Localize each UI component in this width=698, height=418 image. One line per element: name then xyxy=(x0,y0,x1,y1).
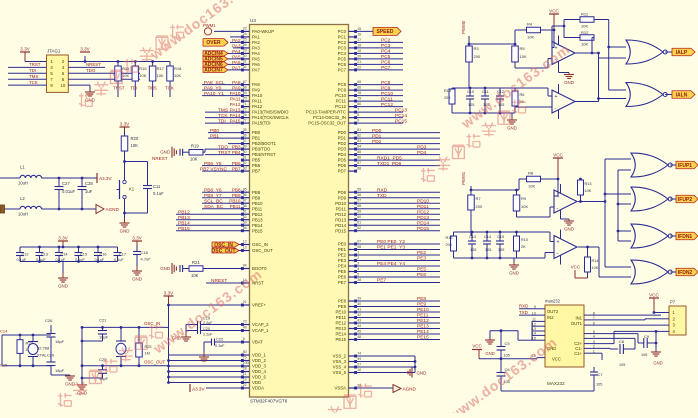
svg-text:RXD: RXD xyxy=(377,187,388,193)
svg-text:RXD1_PD5: RXD1_PD5 xyxy=(377,155,402,161)
svg-text:74: 74 xyxy=(357,351,361,355)
svg-text:max232: max232 xyxy=(545,299,561,304)
svg-text:OSC_OUT: OSC_OUT xyxy=(144,359,166,364)
svg-text:PD1: PD1 xyxy=(338,136,347,141)
svg-text:PE5: PE5 xyxy=(338,269,347,274)
svg-text:76: 76 xyxy=(243,113,247,117)
svg-text:PB6: PB6 xyxy=(232,161,241,166)
svg-text:PE3: PE3 xyxy=(417,256,426,262)
svg-text:PC9: PC9 xyxy=(338,88,347,93)
svg-text:VDDA: VDDA xyxy=(252,386,264,391)
svg-text:R9: R9 xyxy=(521,196,527,201)
svg-text:PB9_Y7: PB9_Y7 xyxy=(204,193,222,199)
svg-text:10K: 10K xyxy=(581,42,588,47)
svg-text:R13: R13 xyxy=(585,182,592,186)
svg-text:31: 31 xyxy=(243,60,247,64)
svg-text:10: 10 xyxy=(357,368,361,372)
svg-text:PE11: PE11 xyxy=(417,313,429,319)
svg-text:PD8: PD8 xyxy=(338,190,347,195)
svg-text:80: 80 xyxy=(357,102,361,106)
svg-text:PB7 VSYNC: PB7 VSYNC xyxy=(200,166,227,172)
svg-text:PE14: PE14 xyxy=(417,329,429,335)
svg-text:PB14: PB14 xyxy=(252,223,263,228)
svg-text:56: 56 xyxy=(357,193,361,197)
svg-text:PD13: PD13 xyxy=(335,217,346,222)
svg-text:3.3V: 3.3V xyxy=(20,47,30,52)
svg-text:C13: C13 xyxy=(469,235,476,239)
svg-text:C9: C9 xyxy=(644,334,650,339)
svg-text:R25: R25 xyxy=(145,345,152,349)
svg-text:99: 99 xyxy=(357,357,361,361)
svg-text:PC11: PC11 xyxy=(336,99,347,104)
svg-text:C8: C8 xyxy=(619,339,625,344)
svg-text:TXD1_PD6: TXD1_PD6 xyxy=(377,161,402,167)
svg-text:C7: C7 xyxy=(598,372,604,377)
svg-text:73: 73 xyxy=(243,320,247,324)
svg-text:PC12: PC12 xyxy=(381,102,393,108)
svg-text:C5: C5 xyxy=(505,341,511,346)
svg-text:PWM0: PWM0 xyxy=(461,20,466,34)
svg-text:PC3: PC3 xyxy=(338,46,347,51)
svg-text:IN2: IN2 xyxy=(547,315,554,320)
svg-text:OUT1: OUT1 xyxy=(571,321,583,326)
svg-text:PA5: PA5 xyxy=(232,54,241,59)
svg-text:OUT2: OUT2 xyxy=(547,309,559,314)
svg-text:PD3: PD3 xyxy=(417,144,427,150)
svg-text:TXD: TXD xyxy=(519,310,528,315)
svg-text:PD5: PD5 xyxy=(338,158,347,163)
svg-text:6: 6 xyxy=(243,337,245,341)
svg-text:C11: C11 xyxy=(153,184,161,189)
svg-text:PE13: PE13 xyxy=(335,326,346,331)
svg-text:PC15: PC15 xyxy=(395,118,407,124)
svg-text:105: 105 xyxy=(641,353,647,357)
svg-text:200: 200 xyxy=(446,243,452,247)
svg-text:PB15: PB15 xyxy=(178,226,190,232)
svg-text:PC4: PC4 xyxy=(338,51,347,56)
svg-text:C15: C15 xyxy=(0,363,8,368)
svg-text:PE2: PE2 xyxy=(417,250,426,256)
svg-text:PE5: PE5 xyxy=(417,267,426,273)
svg-text:PC15-OSC32_OUT: PC15-OSC32_OUT xyxy=(308,121,346,126)
svg-text:42: 42 xyxy=(357,313,361,317)
svg-text:105: 105 xyxy=(498,248,504,252)
svg-text:62: 62 xyxy=(357,226,361,230)
svg-text:5: 5 xyxy=(357,272,359,276)
svg-text:PD0: PD0 xyxy=(338,130,347,135)
svg-text:PE7: PE7 xyxy=(338,280,347,285)
svg-text:PD4: PD4 xyxy=(417,150,427,156)
svg-text:38: 38 xyxy=(357,278,361,282)
svg-text:TCK: TCK xyxy=(165,86,174,91)
svg-text:GND: GND xyxy=(132,277,142,282)
svg-text:100: 100 xyxy=(243,361,249,365)
svg-text:R18: R18 xyxy=(174,66,182,71)
svg-text:37: 37 xyxy=(243,139,247,143)
svg-text:PA4: PA4 xyxy=(252,51,260,56)
svg-text:18pF: 18pF xyxy=(55,339,65,344)
svg-text:91: 91 xyxy=(243,155,247,159)
svg-text:43: 43 xyxy=(357,318,361,322)
svg-text:41: 41 xyxy=(357,307,361,311)
svg-text:21: 21 xyxy=(357,60,361,64)
svg-text:PE10: PE10 xyxy=(417,307,429,313)
svg-text:1: 1 xyxy=(357,250,359,254)
svg-text:R17: R17 xyxy=(157,66,165,71)
svg-text:PB8: PB8 xyxy=(252,190,261,195)
svg-text:IALN: IALN xyxy=(676,92,688,98)
svg-text:16: 16 xyxy=(357,32,361,36)
svg-text:-: - xyxy=(557,205,559,211)
svg-text:TXD: TXD xyxy=(377,193,387,199)
svg-text:28: 28 xyxy=(243,367,247,371)
svg-text:VCAP_2: VCAP_2 xyxy=(252,322,269,327)
svg-text:45: 45 xyxy=(357,329,361,333)
svg-text:49: 49 xyxy=(243,326,247,330)
svg-text:IFUP2: IFUP2 xyxy=(678,197,692,203)
svg-text:10K: 10K xyxy=(528,184,535,189)
svg-text:PC14-OSC32_IN: PC14-OSC32_IN xyxy=(313,115,346,120)
svg-text:A3.3V: A3.3V xyxy=(99,176,112,181)
svg-text:PB0: PB0 xyxy=(252,130,261,135)
svg-text:IFDN1: IFDN1 xyxy=(678,234,693,240)
svg-text:R7: R7 xyxy=(476,196,482,201)
svg-text:PA9_Y0: PA9_Y0 xyxy=(204,85,222,91)
svg-text:4.7uF: 4.7uF xyxy=(141,257,152,262)
svg-text:PE4 PE4_Y4: PE4 PE4_Y4 xyxy=(377,261,405,267)
svg-text:C21: C21 xyxy=(99,318,107,323)
svg-text:C14: C14 xyxy=(484,235,491,239)
svg-text:U3: U3 xyxy=(250,18,256,23)
svg-text:PB3/TDO: PB3/TDO xyxy=(252,147,271,152)
svg-text:PA6: PA6 xyxy=(252,62,260,67)
svg-text:C17: C17 xyxy=(119,252,126,256)
svg-text:27: 27 xyxy=(357,362,361,366)
svg-text:TMS: TMS xyxy=(218,107,228,113)
svg-text:77: 77 xyxy=(243,118,247,122)
svg-text:PC7: PC7 xyxy=(381,65,391,71)
svg-text:PB1: PB1 xyxy=(252,136,261,141)
svg-text:GND: GND xyxy=(160,266,170,271)
svg-text:78: 78 xyxy=(357,91,361,95)
svg-text:PA15(TDI: PA15(TDI xyxy=(252,121,271,126)
svg-text:VSS_2: VSS_2 xyxy=(333,354,347,359)
svg-text:25: 25 xyxy=(243,38,247,42)
svg-text:PA3: PA3 xyxy=(252,46,260,51)
svg-text:PA10_Y1: PA10_Y1 xyxy=(204,91,224,97)
svg-text:10K: 10K xyxy=(585,189,592,193)
svg-text:29: 29 xyxy=(243,49,247,53)
svg-text:PE6: PE6 xyxy=(417,272,426,278)
svg-text:GND: GND xyxy=(485,351,494,356)
svg-text:TMS: TMS xyxy=(29,74,38,79)
svg-text:1uF: 1uF xyxy=(85,189,93,194)
svg-text:PB3: PB3 xyxy=(232,145,241,150)
svg-text:10K: 10K xyxy=(520,54,527,59)
svg-text:PC14: PC14 xyxy=(395,113,407,119)
svg-text:10K: 10K xyxy=(157,73,164,78)
svg-text:R5: R5 xyxy=(520,46,526,51)
svg-text:7: 7 xyxy=(357,108,359,112)
svg-text:PA11: PA11 xyxy=(230,97,241,102)
svg-text:PD14: PD14 xyxy=(417,220,429,226)
svg-text:PB10: PB10 xyxy=(229,199,241,204)
svg-text:TCK: TCK xyxy=(29,80,38,85)
svg-text:C27: C27 xyxy=(62,181,70,186)
svg-text:PC0: PC0 xyxy=(338,29,347,34)
svg-text:VCC: VCC xyxy=(571,265,580,270)
svg-text:2.2uF: 2.2uF xyxy=(203,333,213,337)
svg-text:GND: GND xyxy=(120,229,130,234)
svg-text:R12: R12 xyxy=(581,30,589,35)
svg-text:R4: R4 xyxy=(527,22,533,27)
svg-text:PC1: PC1 xyxy=(338,35,347,40)
svg-text:PA14(TCK/SWCLK: PA14(TCK/SWCLK xyxy=(252,115,289,120)
svg-text:ADCIN7: ADCIN7 xyxy=(204,68,223,74)
svg-text:81: 81 xyxy=(357,128,361,132)
svg-text:C26: C26 xyxy=(45,318,53,323)
svg-text:TDI: TDI xyxy=(218,118,226,124)
svg-text:85: 85 xyxy=(357,150,361,154)
svg-text:PB12: PB12 xyxy=(252,212,263,217)
svg-text:92: 92 xyxy=(243,161,247,165)
svg-text:10K: 10K xyxy=(122,73,129,78)
svg-text:R6: R6 xyxy=(520,93,525,97)
svg-text:21: 21 xyxy=(243,300,247,304)
svg-text:GND: GND xyxy=(85,98,95,103)
svg-text:C14: C14 xyxy=(0,329,8,334)
svg-text:PD7: PD7 xyxy=(338,169,347,174)
svg-text:PD3: PD3 xyxy=(338,147,347,152)
svg-text:75: 75 xyxy=(243,356,247,360)
svg-text:86: 86 xyxy=(357,156,361,160)
svg-text:23: 23 xyxy=(243,27,247,31)
svg-text:C18: C18 xyxy=(141,250,149,255)
svg-text:8: 8 xyxy=(357,113,359,117)
svg-text:2K: 2K xyxy=(521,245,526,249)
svg-text:10K: 10K xyxy=(174,73,181,78)
svg-text:OSC_IN: OSC_IN xyxy=(252,242,268,247)
svg-text:10uH: 10uH xyxy=(18,212,28,217)
svg-text:84: 84 xyxy=(357,145,361,149)
svg-text:66: 66 xyxy=(357,86,361,90)
svg-text:PB13: PB13 xyxy=(178,215,190,221)
svg-text:PC5: PC5 xyxy=(381,54,391,60)
svg-text:17: 17 xyxy=(357,38,361,42)
svg-text:PE9: PE9 xyxy=(417,302,426,308)
svg-text:GND: GND xyxy=(58,284,68,289)
svg-text:0.1uF: 0.1uF xyxy=(215,344,225,348)
svg-text:-: - xyxy=(557,251,559,257)
svg-text:VDD_3: VDD_3 xyxy=(252,364,266,369)
svg-text:60: 60 xyxy=(357,215,361,219)
svg-text:PE3: PE3 xyxy=(338,258,347,263)
svg-text:3: 3 xyxy=(357,261,359,265)
svg-text:PE11: PE11 xyxy=(336,315,347,320)
svg-text:PE1: PE1 xyxy=(338,247,347,252)
svg-text:VCC: VCC xyxy=(552,356,561,361)
svg-text:SDA_BC: SDA_BC xyxy=(204,204,224,210)
svg-text:32.768: 32.768 xyxy=(37,346,50,351)
svg-text:10K: 10K xyxy=(191,273,199,278)
svg-text:54: 54 xyxy=(243,226,247,230)
svg-text:PB9: PB9 xyxy=(232,193,241,198)
svg-text:50: 50 xyxy=(243,350,247,354)
svg-text:PA12: PA12 xyxy=(230,102,241,107)
svg-text:PB8_Y6: PB8_Y6 xyxy=(204,187,222,193)
svg-text:VSSA: VSSA xyxy=(335,386,347,391)
svg-text:PE1 PE1_Y3: PE1 PE1_Y3 xyxy=(377,245,405,251)
svg-text:PA5: PA5 xyxy=(252,57,260,62)
svg-text:PC13-TAMPER-RTC: PC13-TAMPER-RTC xyxy=(306,110,346,115)
svg-text:105: 105 xyxy=(485,248,491,252)
svg-text:C22: C22 xyxy=(216,337,223,342)
svg-text:PB2/BOOT1: PB2/BOOT1 xyxy=(252,141,276,146)
svg-text:90: 90 xyxy=(243,150,247,154)
svg-text:VCC: VCC xyxy=(553,153,563,158)
svg-text:PE2: PE2 xyxy=(338,253,347,258)
svg-text:PA1: PA1 xyxy=(252,35,260,40)
svg-text:57: 57 xyxy=(357,199,361,203)
svg-text:IALP: IALP xyxy=(676,50,688,56)
svg-text:PC12: PC12 xyxy=(335,104,346,109)
svg-text:GND: GND xyxy=(160,150,170,155)
svg-text:88: 88 xyxy=(357,167,361,171)
svg-text:22: 22 xyxy=(357,65,361,69)
svg-text:48: 48 xyxy=(243,204,247,208)
svg-text:19: 19 xyxy=(243,378,247,382)
svg-text:PB12: PB12 xyxy=(178,209,190,215)
svg-text:C11: C11 xyxy=(482,90,489,94)
svg-text:10uH: 10uH xyxy=(18,181,28,186)
svg-text:VCAP_1: VCAP_1 xyxy=(252,328,269,333)
svg-text:VDD_5: VDD_5 xyxy=(252,375,266,380)
svg-text:GND: GND xyxy=(509,271,519,276)
svg-text:89: 89 xyxy=(243,144,247,148)
svg-text:39: 39 xyxy=(357,296,361,300)
svg-text:C15: C15 xyxy=(80,252,87,256)
svg-text:PB10: PB10 xyxy=(252,201,263,206)
svg-text:36: 36 xyxy=(243,133,247,137)
svg-text:18: 18 xyxy=(357,43,361,47)
svg-text:PB7: PB7 xyxy=(232,167,241,172)
svg-text:18pF: 18pF xyxy=(55,368,65,373)
svg-text:PD11: PD11 xyxy=(417,204,429,210)
svg-text:PA2: PA2 xyxy=(252,40,260,45)
svg-text:30: 30 xyxy=(243,54,247,58)
svg-text:R14: R14 xyxy=(592,259,599,263)
svg-text:55: 55 xyxy=(357,188,361,192)
svg-text:OSC_OUT: OSC_OUT xyxy=(252,248,273,253)
svg-text:PC8: PC8 xyxy=(338,82,347,87)
svg-text:PD12: PD12 xyxy=(417,209,429,215)
svg-text:VCC: VCC xyxy=(472,344,481,349)
svg-text:VDD: VDD xyxy=(252,380,261,385)
svg-text:AGND: AGND xyxy=(403,387,417,392)
svg-text:12: 12 xyxy=(243,240,247,244)
svg-text:PA4: PA4 xyxy=(232,49,241,54)
svg-text:PE8: PE8 xyxy=(417,296,426,302)
svg-text:10K: 10K xyxy=(592,266,599,270)
svg-text:40: 40 xyxy=(357,302,361,306)
svg-text:R20: R20 xyxy=(131,136,139,141)
svg-text:C15: C15 xyxy=(497,235,504,239)
svg-text:3.3V: 3.3V xyxy=(80,47,90,52)
svg-text:R21: R21 xyxy=(192,260,200,265)
svg-text:R10: R10 xyxy=(521,238,528,242)
svg-text:3.3V: 3.3V xyxy=(120,122,130,127)
svg-text:PA13(TMS/SWDIO: PA13(TMS/SWDIO xyxy=(252,110,289,115)
svg-text:PE10: PE10 xyxy=(335,310,346,315)
svg-text:15: 15 xyxy=(357,27,361,31)
svg-text:C28: C28 xyxy=(85,181,93,186)
svg-text:52: 52 xyxy=(243,215,247,219)
svg-text:105: 105 xyxy=(596,383,602,387)
svg-text:OSC_OUT: OSC_OUT xyxy=(211,248,235,254)
svg-text:NREST: NREST xyxy=(152,156,168,161)
svg-text:PA3: PA3 xyxy=(232,43,241,48)
svg-text:PC10: PC10 xyxy=(381,91,393,97)
svg-text:RXD: RXD xyxy=(519,304,528,309)
svg-text:JTAG1: JTAG1 xyxy=(47,49,61,54)
svg-text:PC8: PC8 xyxy=(381,80,391,86)
svg-text:TDI: TDI xyxy=(130,86,137,91)
svg-text:96: 96 xyxy=(243,193,247,197)
svg-text:TDO: TDO xyxy=(86,68,96,73)
svg-text:98: 98 xyxy=(357,245,361,249)
svg-text:AGND: AGND xyxy=(106,207,120,212)
svg-text:IFDN2: IFDN2 xyxy=(678,270,693,276)
svg-text:PC3: PC3 xyxy=(381,43,391,49)
svg-text:PC9: PC9 xyxy=(381,85,391,91)
svg-text:PB6_Y5: PB6_Y5 xyxy=(204,161,222,167)
svg-text:58: 58 xyxy=(357,204,361,208)
svg-text:2: 2 xyxy=(357,256,359,260)
svg-text:3.3V: 3.3V xyxy=(58,236,68,241)
svg-text:VSS_3: VSS_3 xyxy=(333,359,347,364)
svg-text:PD15: PD15 xyxy=(335,228,346,233)
svg-text:PA14: PA14 xyxy=(230,113,241,118)
svg-text:PB4/NTRST: PB4/NTRST xyxy=(252,152,276,157)
svg-text:95: 95 xyxy=(243,187,247,191)
svg-text:10: 10 xyxy=(61,83,66,88)
svg-text:32: 32 xyxy=(243,65,247,69)
svg-text:200: 200 xyxy=(444,96,450,100)
svg-text:PA2: PA2 xyxy=(232,38,241,43)
svg-text:PC5: PC5 xyxy=(338,57,347,62)
svg-text:1M: 1M xyxy=(145,352,150,356)
svg-text:PA10: PA10 xyxy=(252,93,263,98)
svg-text:0.01uF: 0.01uF xyxy=(62,189,75,194)
svg-text:3.3V: 3.3V xyxy=(164,291,174,296)
svg-text:PC6: PC6 xyxy=(381,60,391,66)
svg-text:PE15: PE15 xyxy=(335,337,346,342)
svg-text:XTALC29: XTALC29 xyxy=(37,353,55,358)
svg-text:PC10: PC10 xyxy=(335,93,346,98)
svg-text:PB15: PB15 xyxy=(252,228,263,233)
svg-text:PD10: PD10 xyxy=(335,201,346,206)
svg-text:GND: GND xyxy=(65,382,75,387)
svg-text:PC4: PC4 xyxy=(381,49,391,55)
svg-text:35: 35 xyxy=(243,128,247,132)
svg-text:PE0: PE0 xyxy=(338,242,347,247)
svg-text:26: 26 xyxy=(243,43,247,47)
svg-text:IFUP1: IFUP1 xyxy=(678,163,692,169)
svg-text:70: 70 xyxy=(243,96,247,100)
svg-text:VBAT: VBAT xyxy=(252,340,263,345)
svg-text:VDD_2: VDD_2 xyxy=(252,358,266,363)
svg-text:TRST: TRST xyxy=(113,86,125,91)
